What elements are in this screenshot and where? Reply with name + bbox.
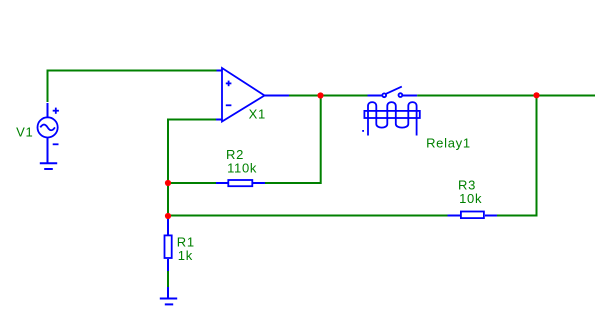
wire: output node to relay switch bbox=[321, 95, 369, 97]
ground (V1) bbox=[40, 163, 57, 169]
op-amp X1 bbox=[216, 68, 289, 122]
wire: op-amp inverting input down left column bbox=[168, 120, 216, 217]
wire: relay switch to right node bbox=[417, 95, 536, 97]
wire: R1 to ground bbox=[167, 271, 169, 288]
svg-text:1k: 1k bbox=[178, 248, 193, 263]
voltage source V1 bbox=[38, 103, 59, 163]
junction: right node bbox=[533, 92, 539, 98]
svg-text:110k: 110k bbox=[227, 161, 257, 176]
junction: divider node bbox=[165, 213, 171, 219]
svg-text:X1: X1 bbox=[249, 106, 266, 121]
svg-text:V1: V1 bbox=[16, 124, 33, 139]
resistor R2 bbox=[216, 180, 265, 186]
ground (R1) bbox=[160, 287, 177, 304]
resistor R3 bbox=[448, 212, 498, 219]
svg-text:10k: 10k bbox=[459, 191, 482, 206]
relay Relay1 bbox=[362, 87, 420, 136]
wire: op-amp output to output node bbox=[289, 95, 321, 97]
wire: divider node to R3 left lead bbox=[168, 215, 448, 217]
svg-text:Relay1: Relay1 bbox=[426, 135, 471, 150]
wire: output node down to R2 right lead bbox=[265, 96, 321, 183]
junction: output node bbox=[317, 92, 323, 98]
wire: R3 right lead up to right node bbox=[497, 96, 537, 216]
wire: right node to right edge bbox=[537, 95, 595, 97]
wire: R2 left lead to inverting node column bbox=[168, 182, 216, 184]
junction: feedback node bbox=[165, 180, 171, 186]
resistor R1 bbox=[165, 216, 172, 271]
wire: V1 top to op-amp non-inverting input bbox=[48, 71, 218, 103]
